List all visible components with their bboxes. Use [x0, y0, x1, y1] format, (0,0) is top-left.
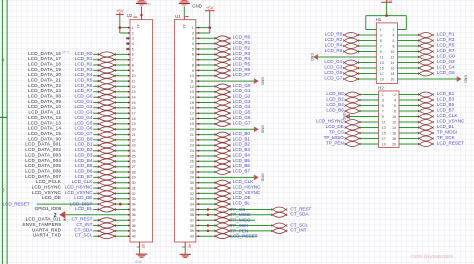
svg-text:*]: *]	[67, 50, 69, 54]
svg-text:LCD_DATA_19: LCD_DATA_19	[28, 67, 61, 72]
svg-text:LCD_HSYNC: LCD_HSYNC	[316, 118, 345, 123]
svg-text:LCD_B7: LCD_B7	[437, 107, 455, 112]
svg-text:17: 17	[382, 137, 386, 141]
wire +5V to U1 pins 1,2	[196, 11, 210, 34]
net LCD_G2 (U1 pin 14)	[196, 94, 251, 100]
svg-text:LCD_B3: LCD_B3	[233, 147, 251, 152]
junction +5V/pin1	[119, 26, 122, 29]
net LCD_VSYNC (H2 row 6 right)	[399, 118, 465, 124]
svg-text:LCD_G0: LCD_G0	[233, 83, 251, 88]
svg-text:GND: GND	[192, 3, 202, 8]
connector U2	[130, 20, 153, 242]
svg-text:LCD_DATA_15: LCD_DATA_15	[28, 131, 61, 136]
svg-text:3: 3	[382, 98, 384, 102]
svg-text:8: 8	[132, 63, 134, 67]
svg-text:LCD_DATA_001: LCD_DATA_001	[25, 142, 61, 147]
svg-text:TP_CS: TP_CS	[329, 129, 344, 134]
svg-text:LCD_B5: LCD_B5	[75, 163, 93, 168]
svg-text:LCD_B7: LCD_B7	[75, 174, 93, 179]
svg-text:LCD_BL: LCD_BL	[75, 206, 93, 211]
power +5V (H1 top, clipped)	[381, 0, 393, 2]
svg-text:LCD_B4: LCD_B4	[233, 152, 251, 157]
svg-text:LCD_RESET: LCD_RESET	[3, 202, 30, 207]
wire/net LCD_G0 (U2 pin 14)	[28, 94, 130, 100]
ground port GND (H1 pin 11, west)	[310, 53, 377, 61]
wire/net LCD_B7 (U2 pin 29)	[25, 174, 130, 180]
svg-text:LCD_G0: LCD_G0	[75, 94, 93, 99]
net LCD_R6 (H1 row 5 left)	[325, 48, 377, 54]
net TP_PEN (H2 row 10 left)	[326, 140, 379, 146]
svg-text:TP_MOSI: TP_MOSI	[437, 129, 457, 134]
wire/net LCD_B3 (U2 pin 25)	[25, 152, 130, 158]
svg-text:LCD_R1: LCD_R1	[233, 40, 251, 45]
net LCD_R2 (U1 pin 5)	[196, 45, 251, 51]
net LCD_G2 (H1 row 7 right)	[397, 59, 455, 65]
svg-text:18: 18	[390, 72, 394, 76]
svg-text:TP_MISO: TP_MISO	[324, 135, 345, 140]
svg-text:31: 31	[190, 186, 194, 190]
svg-text:LCD_B5: LCD_B5	[437, 102, 455, 107]
svg-text:14: 14	[190, 96, 194, 100]
svg-text:32: 32	[190, 192, 194, 196]
net LCD_B6 (U1 pin 27)	[196, 163, 251, 169]
net LCD_B1 (U1 pin 22)	[196, 136, 251, 142]
svg-text:LCD_B6: LCD_B6	[75, 168, 93, 173]
wire/net LCD_HSYNC (U2 pin 31)	[32, 185, 131, 191]
svg-text:25: 25	[132, 154, 136, 158]
svg-text:LCD_G3: LCD_G3	[75, 110, 93, 115]
no-connect U2 pin 3	[126, 37, 130, 39]
svg-text:37: 37	[132, 219, 136, 223]
svg-text:LCD_HSYNC: LCD_HSYNC	[32, 185, 62, 190]
svg-text:LCD_CLK: LCD_CLK	[437, 113, 459, 118]
net LCD_G5 (H1 row 9 left)	[324, 70, 376, 76]
net LCD_G7 (H1 row 10 left)	[324, 75, 376, 81]
svg-text:LCD_B1: LCD_B1	[233, 136, 251, 141]
svg-text:22: 22	[132, 138, 136, 142]
svg-text:LCD_B5: LCD_B5	[233, 158, 251, 163]
svg-text:LCD_PCLK: LCD_PCLK	[36, 179, 62, 184]
svg-text:LCD_R7: LCD_R7	[437, 48, 455, 53]
net LCD_G1 (H1 row 7 left)	[324, 59, 376, 65]
svg-text:LCD_B2: LCD_B2	[326, 96, 344, 101]
wire/net LCD_B5 (U2 pin 27)	[25, 163, 130, 169]
net LCD_B1 (H2 row 1 right)	[399, 91, 455, 97]
svg-text:U2: U2	[127, 13, 133, 18]
svg-text:15: 15	[382, 131, 386, 135]
svg-text:LCD_R2: LCD_R2	[233, 45, 251, 50]
svg-text:21: 21	[190, 133, 194, 137]
net LCD_B5 (H2 row 3 right)	[399, 102, 455, 108]
svg-text:LCD_BL: LCD_BL	[233, 201, 251, 206]
svg-text:26: 26	[132, 160, 136, 164]
svg-text:LCD_BL: LCD_BL	[437, 124, 455, 129]
net TP_MOSI (U1 pin 36)	[196, 212, 310, 218]
junction +5V/H1	[385, 14, 388, 17]
ground port GND (H2 pin 9, west)	[342, 113, 379, 121]
svg-text:LCD_B0: LCD_B0	[326, 91, 344, 96]
svg-text:LCD_DATA_14: LCD_DATA_14	[28, 126, 61, 131]
svg-text:10: 10	[390, 50, 394, 54]
ground port GND (H1 pin 20, east)	[397, 75, 467, 83]
svg-text:13: 13	[382, 126, 386, 130]
wire/net LCD_R3 (U2 pin 9)	[28, 67, 130, 73]
svg-text:37: 37	[190, 219, 194, 223]
svg-text:33: 33	[132, 197, 136, 201]
svg-text:16: 16	[392, 131, 396, 135]
svg-text:32: 32	[132, 192, 136, 196]
svg-text:1: 1	[132, 26, 134, 30]
net LCD_G6 (U1 pin 18)	[196, 115, 251, 121]
wire/net LCD_G1 (U2 pin 15)	[28, 99, 130, 105]
svg-text:7: 7	[132, 58, 134, 62]
svg-text:LCD_DATA_004: LCD_DATA_004	[25, 158, 61, 163]
svg-text:16: 16	[132, 106, 136, 110]
wire +5V bracket to H1 pins 1,2	[366, 2, 407, 29]
svg-text:LCD_G1: LCD_G1	[75, 99, 93, 104]
svg-text:18: 18	[132, 117, 136, 121]
net LCD_R0 (U1 pin 3)	[196, 35, 251, 41]
connector H2	[379, 91, 400, 148]
off-sheet port 2 (U2 pin 36)	[54, 212, 130, 221]
svg-text:36: 36	[190, 213, 194, 217]
svg-text:LCD_R4: LCD_R4	[75, 72, 93, 77]
svg-text:39: 39	[132, 229, 136, 233]
svg-text:LCD_G1: LCD_G1	[233, 88, 251, 93]
svg-text:5: 5	[132, 47, 134, 51]
wire/net LCD_DE (U2 pin 33)	[42, 195, 130, 201]
svg-text:LCD_R2: LCD_R2	[325, 37, 343, 42]
wire/net LCD_B6 (U2 pin 28)	[25, 168, 130, 174]
wire/net LCD_R5 (U2 pin 11)	[28, 78, 130, 84]
svg-text:19: 19	[380, 77, 384, 81]
net LCD_B3 (U1 pin 24)	[196, 147, 251, 153]
svg-text:LCD_R0: LCD_R0	[233, 35, 251, 40]
svg-text:LCD_G1: LCD_G1	[324, 59, 342, 64]
svg-text:35: 35	[132, 208, 136, 212]
svg-text:16: 16	[190, 106, 194, 110]
power +5V (U2 top)	[116, 9, 124, 15]
svg-text:GND: GND	[342, 113, 346, 121]
svg-text:LCD_R3: LCD_R3	[437, 37, 455, 42]
svg-text:GND: GND	[310, 53, 314, 61]
svg-text:8: 8	[392, 44, 394, 48]
svg-text:4: 4	[392, 33, 394, 37]
svg-text:CT_SDA: CT_SDA	[290, 212, 309, 217]
svg-text:LCD_G7: LCD_G7	[324, 75, 342, 80]
svg-text:8: 8	[394, 109, 396, 113]
svg-text:6: 6	[192, 53, 194, 57]
svg-text:LCD_HSYNC: LCD_HSYNC	[65, 185, 94, 190]
svg-text:4: 4	[394, 98, 396, 102]
svg-text:14: 14	[390, 61, 394, 65]
svg-text:2: 2	[192, 31, 194, 35]
svg-text:20: 20	[392, 142, 396, 146]
svg-text:LCD_R5: LCD_R5	[75, 78, 93, 83]
svg-text:LCD_B1: LCD_B1	[75, 142, 93, 147]
svg-text:GND: GND	[464, 75, 468, 83]
net LCD_RESET (U1 pin 40)	[196, 234, 258, 239]
svg-text:LCD_R0: LCD_R0	[325, 31, 343, 36]
svg-text:U1: U1	[175, 14, 181, 19]
svg-text:19: 19	[132, 122, 136, 126]
svg-text:30: 30	[132, 181, 136, 185]
net LCD_R3 (U1 pin 6)	[196, 51, 251, 57]
svg-text:1: 1	[380, 28, 382, 32]
svg-text:TP_MISO: TP_MISO	[230, 218, 251, 223]
net LCD_B0 (U1 pin 21)	[196, 131, 251, 137]
net CT_SDA (U2 pin 39)	[32, 227, 130, 233]
svg-text:CT_REST: CT_REST	[290, 206, 311, 211]
wire/net LCD_R2 (U2 pin 8)	[28, 62, 130, 68]
net LCD_B3 (H2 row 2 right)	[399, 96, 455, 102]
net LCD_R1 (U1 pin 4)	[196, 40, 251, 46]
svg-text:20: 20	[190, 128, 194, 132]
net LCD_R2 (H1 row 3 left)	[325, 37, 377, 43]
svg-text:29: 29	[132, 176, 136, 180]
net TP_MISO (H2 row 9 left)	[324, 135, 379, 141]
svg-text:42: 42	[141, 244, 146, 249]
svg-text:LCD_R4: LCD_R4	[325, 42, 343, 47]
net LCD_B5 (U1 pin 26)	[196, 158, 251, 164]
svg-text:36: 36	[132, 213, 136, 217]
svg-text:11: 11	[382, 120, 386, 124]
svg-text:20: 20	[390, 77, 394, 81]
svg-text:7: 7	[192, 58, 194, 62]
svg-text:LCD_G7: LCD_G7	[75, 131, 93, 136]
svg-text:13: 13	[132, 90, 136, 94]
svg-text:UART4_TXD: UART4_TXD	[33, 233, 62, 238]
svg-text:5: 5	[192, 47, 194, 51]
net LCD_B4 (U1 pin 25)	[196, 152, 251, 158]
svg-text:TP_PEN: TP_PEN	[326, 140, 344, 145]
svg-text:C5: C5	[62, 50, 66, 54]
svg-text:6: 6	[394, 104, 396, 108]
wire +5V to U2 pins 1,2	[120, 14, 130, 33]
svg-text:34: 34	[190, 203, 194, 207]
wire/net LCD_CLK (U2 pin 30)	[36, 179, 130, 185]
svg-text:9: 9	[382, 115, 384, 119]
connector H1	[376, 23, 397, 84]
net LCD_DE (U1 pin 33)	[196, 195, 251, 201]
net LCD_VSYNC (U1 pin 32)	[196, 190, 261, 196]
svg-text:15: 15	[132, 101, 136, 105]
svg-text:GND: GND	[145, 2, 151, 6]
svg-text:LCD_B0: LCD_B0	[233, 131, 251, 136]
junction +5V/U1 pin1	[208, 26, 211, 29]
svg-text:LCD_DATA_11: LCD_DATA_11	[28, 110, 61, 115]
net LCD_HSYNC (H2 row 6 left)	[316, 118, 379, 124]
svg-text:12: 12	[190, 85, 194, 89]
svg-text:24: 24	[132, 149, 136, 153]
pin 41 (top shell pin) U1	[182, 17, 188, 30]
svg-text:LCD_G4: LCD_G4	[75, 115, 93, 120]
svg-text:18: 18	[392, 137, 396, 141]
svg-text:4: 4	[192, 42, 194, 46]
net LCD_R7 (H1 row 5 right)	[397, 48, 455, 54]
svg-text:LCD_CLK: LCD_CLK	[72, 179, 94, 184]
svg-text:14: 14	[132, 96, 136, 100]
svg-text:12: 12	[390, 55, 394, 59]
svg-text:LCD_DE: LCD_DE	[74, 195, 92, 200]
wire/net LCD_G3 (U2 pin 17)	[28, 110, 130, 116]
svg-text:24: 24	[190, 149, 194, 153]
svg-text:LCD_DATA_18: LCD_DATA_18	[28, 62, 61, 67]
svg-text:9: 9	[380, 50, 382, 54]
svg-text:CT_INT: CT_INT	[290, 228, 306, 233]
svg-text:LCD_R1: LCD_R1	[75, 56, 93, 61]
svg-text:12: 12	[392, 120, 396, 124]
net LCD_B7 (H2 row 4 right)	[399, 107, 455, 113]
svg-text:LCD_DE: LCD_DE	[42, 195, 61, 200]
svg-text:LCD_G2: LCD_G2	[437, 59, 455, 64]
svg-text:H2: H2	[378, 85, 384, 90]
svg-text:2: 2	[392, 28, 394, 32]
svg-text:LCD_R6: LCD_R6	[233, 67, 251, 72]
ground GND (U2 bottom)	[135, 247, 147, 264]
svg-text:6: 6	[132, 53, 134, 57]
net LCD_G7 (U1 pin 19)	[196, 120, 251, 126]
svg-text:CT_SDA: CT_SDA	[74, 227, 93, 232]
net LCD_B7 (U1 pin 28)	[196, 168, 251, 174]
svg-text:27: 27	[190, 165, 194, 169]
ground GND (U1 top)	[179, 0, 190, 20]
svg-text:13: 13	[190, 90, 194, 94]
wire/net LCD_B4 (U2 pin 26)	[25, 158, 130, 164]
svg-text:6: 6	[392, 39, 394, 43]
svg-text:LCD_G6: LCD_G6	[233, 115, 251, 120]
svg-text:LCD_DATA_005: LCD_DATA_005	[25, 163, 61, 168]
svg-text:LCD_G7: LCD_G7	[233, 120, 251, 125]
no-connect U2 pin 5	[126, 48, 130, 50]
ground GND (U2 top)	[136, 0, 151, 20]
svg-text:2: 2	[394, 93, 396, 97]
net LCD_CLK (H2 row 5 right)	[399, 113, 459, 119]
svg-text:LCD_DATA_006: LCD_DATA_006	[25, 168, 61, 173]
svg-text:10: 10	[190, 74, 194, 78]
wire/net LCD_R0 (U2 pin 6)	[28, 51, 130, 57]
svg-text:LCD_RESET: LCD_RESET	[230, 234, 257, 239]
svg-text:H1: H1	[376, 17, 382, 22]
svg-text:40: 40	[132, 235, 136, 239]
svg-text:LCD_VSYNC: LCD_VSYNC	[65, 190, 93, 195]
svg-text:LCD_DATA_10: LCD_DATA_10	[28, 104, 61, 109]
ground GND (U1 bottom)	[180, 247, 191, 258]
wire/net LCD_G2 (U2 pin 16)	[28, 104, 130, 110]
svg-text:15: 15	[190, 101, 194, 105]
svg-text:33: 33	[190, 197, 194, 201]
svg-text:LCD_G6: LCD_G6	[75, 126, 93, 131]
svg-text:3: 3	[380, 33, 382, 37]
wire/net LCD_R6 (U2 pin 12)	[28, 83, 130, 89]
svg-text:LCD_DATA_17: LCD_DATA_17	[28, 56, 61, 61]
svg-text:25: 25	[190, 154, 194, 158]
ground port GND (U1 pin 11)	[196, 77, 265, 85]
svg-text:9: 9	[132, 69, 134, 73]
svg-text:TP_CS: TP_CS	[230, 207, 245, 212]
pin 41 (top shell pin) U2	[133, 17, 141, 29]
net TP_MISO (U1 pin 37)	[196, 218, 255, 223]
svg-text:22: 22	[190, 138, 194, 142]
svg-text:LCD_DATA_20: LCD_DATA_20	[28, 72, 61, 77]
svg-text:CT_SCL: CT_SCL	[75, 233, 93, 238]
svg-text:41: 41	[136, 24, 141, 29]
net CT_INT (U2 pin 38)	[22, 222, 130, 228]
svg-text:LCD_G5: LCD_G5	[233, 110, 251, 115]
net TP_CS (H2 row 8 left)	[329, 129, 379, 135]
svg-text:17: 17	[380, 72, 384, 76]
net LCD_B0 (H2 row 1 left)	[326, 91, 378, 97]
net LCD_RESET (H2 row 10 right)	[399, 140, 464, 146]
svg-text:LCD_B2: LCD_B2	[75, 147, 93, 152]
svg-text:GND: GND	[261, 173, 265, 181]
svg-text:LCD_G3: LCD_G3	[324, 64, 342, 69]
svg-text:12: 12	[132, 85, 136, 89]
svg-text:8: 8	[192, 63, 194, 67]
svg-text:1: 1	[192, 26, 194, 30]
svg-text:38: 38	[190, 224, 194, 228]
net LCD_R1 (H1 row 2 right)	[397, 31, 455, 37]
ground port GND (U1 pin 29)	[196, 173, 265, 181]
svg-text:TP_SCK: TP_SCK	[437, 135, 456, 140]
svg-text:30: 30	[190, 181, 194, 185]
svg-text:CT_REST: CT_REST	[71, 217, 92, 222]
svg-text:LCD_G5: LCD_G5	[324, 70, 342, 75]
annotation marks row 16	[62, 50, 69, 54]
svg-text:LCD_G0: LCD_G0	[437, 53, 455, 58]
junction GND stem U2	[140, 14, 142, 16]
svg-text:LCD_R7: LCD_R7	[233, 72, 251, 77]
svg-text:LCD_VSYNC: LCD_VSYNC	[437, 118, 465, 123]
svg-text:LCD_B6: LCD_B6	[326, 107, 344, 112]
svg-text:LCD_G5: LCD_G5	[75, 120, 93, 125]
svg-text:TP_MOSI: TP_MOSI	[230, 212, 250, 217]
svg-text:40: 40	[190, 235, 194, 239]
net LCD_R5 (U1 pin 8)	[196, 62, 251, 68]
pin 42 (bottom shell) U1	[182, 242, 192, 249]
svg-text:10: 10	[132, 74, 136, 78]
net LCD_R5 (H1 row 4 right)	[397, 42, 455, 48]
svg-text:14: 14	[392, 126, 396, 130]
junction LCD_RESET wire	[119, 203, 122, 206]
svg-text:LCD_DATA_007: LCD_DATA_007	[25, 174, 61, 179]
svg-text:LCD_R5: LCD_R5	[437, 42, 455, 47]
svg-text:LCD_G2: LCD_G2	[233, 94, 251, 99]
svg-text:LCD_B6: LCD_B6	[233, 163, 251, 168]
net LCD_R0 (H1 row 2 left)	[325, 31, 377, 37]
wire/net LCD_G4 (U2 pin 18)	[28, 115, 130, 121]
svg-text:LCD_R3: LCD_R3	[233, 51, 251, 56]
svg-text:SNVS_TAMPER9: SNVS_TAMPER9	[22, 222, 61, 227]
svg-text:LCD_R6: LCD_R6	[325, 48, 343, 53]
net LCD_HSYNC (U1 pin 31)	[196, 185, 262, 191]
svg-text:9: 9	[192, 69, 194, 73]
svg-text:+5V: +5V	[206, 5, 214, 10]
net LCD_R4 (H1 row 4 left)	[325, 42, 377, 48]
svg-text:23: 23	[132, 144, 136, 148]
svg-text:20: 20	[132, 128, 136, 132]
svg-text:CT_INT: CT_INT	[76, 222, 92, 227]
net CT_REST (U2 pin 37)	[26, 217, 131, 223]
svg-text:LCD_G4: LCD_G4	[233, 104, 251, 109]
net LCD_G3 (H1 row 8 left)	[324, 64, 376, 70]
svg-text:LCD_DATA_08: LCD_DATA_08	[28, 94, 61, 99]
svg-text:13: 13	[380, 61, 384, 65]
net LCD_R3 (H1 row 3 right)	[397, 37, 455, 43]
svg-text:16: 16	[390, 66, 394, 70]
svg-text:CSDN @ky358532599: CSDN @ky358532599	[411, 254, 454, 259]
svg-text:17: 17	[190, 112, 194, 116]
